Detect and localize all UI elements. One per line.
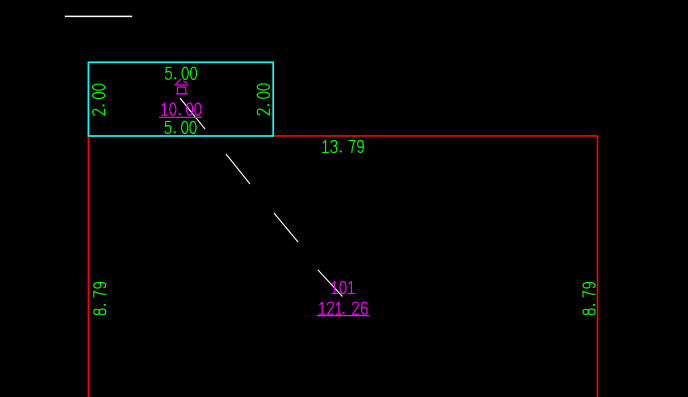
label 121.26 (room area, magenta underlined)	[319, 302, 367, 314]
underline for 121.26	[317, 315, 370, 317]
dimension text 5.00 (bottom, inside platform)	[165, 121, 196, 133]
dimension text 13.79 (top wall)	[323, 141, 364, 153]
underline for 10.00	[159, 116, 202, 118]
label 10.00 (platform area, magenta underlined)	[162, 103, 201, 115]
red building outline (right wall)	[597, 136, 599, 397]
dimension text 8.79 (left wall, rotated)	[94, 283, 106, 315]
dimension text 5.00 (top, inside platform)	[166, 67, 197, 79]
dimension text 2.00 (left, rotated)	[93, 84, 105, 115]
red building outline (top wall)	[273, 135, 598, 137]
cyan platform rectangle	[88, 62, 273, 136]
dimension text 8.79 (right wall, rotated)	[583, 283, 595, 315]
red building outline (left wall)	[87, 136, 89, 397]
white dashed diagonal leader (4 dashes)	[180, 98, 343, 297]
label 101 (room number, magenta)	[332, 281, 354, 293]
white reference line top-left	[65, 15, 132, 17]
dimension text 2.00 (right, rotated)	[257, 84, 269, 115]
label 台 (platform char, hand-drawn strokes)	[175, 79, 188, 94]
